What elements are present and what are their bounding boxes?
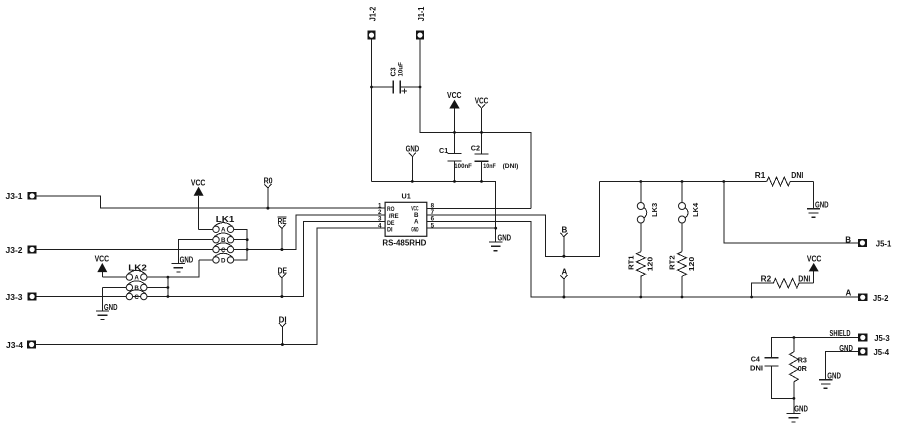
power VCC arrow (LK1) (194, 187, 213, 230)
svg-text:C4: C4 (751, 354, 760, 363)
jumper LK1 row D (199, 253, 234, 263)
net flag A (on A rail) (560, 275, 567, 299)
wire U1 pin6 A down (427, 222, 858, 298)
wire GND rail top (372, 181, 496, 242)
jumper LK2 row A (126, 270, 199, 280)
wire J5-4 to ground (826, 351, 859, 379)
jumper LK2 row C (126, 290, 147, 300)
ground symbol (LK2 B) (96, 288, 109, 320)
junction SHIELD x R3 (793, 336, 796, 339)
svg-text:GND: GND (794, 405, 808, 414)
jumper LK1 row A (213, 223, 234, 233)
svg-text:DNI: DNI (750, 363, 763, 372)
net flag GND (top rail) (409, 153, 416, 182)
junction LK2 A-right bus (167, 276, 170, 279)
jumper LK1 row C (213, 243, 234, 253)
label RE with overline (278, 217, 288, 226)
svg-text:DI: DI (279, 316, 287, 325)
svg-text:DNI: DNI (798, 274, 810, 283)
svg-text:LK4: LK4 (691, 203, 700, 217)
junction VCC line x C1 (453, 131, 456, 134)
svg-text:J3-2: J3-2 (6, 246, 24, 255)
power VCC arrow (R2) (809, 263, 819, 283)
svg-text:C3: C3 (389, 67, 398, 76)
ground symbol (U1 GND) (489, 242, 502, 251)
connector terminal J3-1 (28, 192, 37, 200)
junction C3 left (370, 86, 373, 89)
resistor R3 (790, 338, 799, 399)
capacitor C4 branch (765, 338, 794, 399)
resistor RT2 (678, 252, 687, 298)
wire J3-3 through LK2 row C up to U1 pin3 (37, 221, 385, 296)
connector terminal J5-3 (858, 334, 867, 342)
wire B to J5-1 (724, 182, 858, 243)
svg-text:J5-1: J5-1 (876, 240, 892, 249)
connector terminal J1-2 (368, 31, 376, 40)
svg-text:J5-4: J5-4 (874, 348, 890, 357)
jumper LK1 row B (178, 233, 247, 243)
svg-text:VCC: VCC (475, 96, 489, 105)
svg-text:DI: DI (387, 226, 393, 233)
svg-text:10uF: 10uF (398, 62, 405, 77)
capacitor C1 (448, 153, 462, 181)
svg-text:GND: GND (411, 226, 419, 233)
op-amp U1 transceiver box (385, 202, 427, 236)
svg-text:B: B (845, 235, 851, 244)
wire J3-1 to U1 pin1 (37, 196, 385, 208)
wire U1 pin5 GND (427, 227, 496, 229)
junction LK2 bus x J3-3 (167, 295, 170, 298)
svg-text:LK3: LK3 (650, 203, 659, 217)
net flag R0 (on J3-1 wire) (264, 184, 271, 210)
svg-text:C: C (134, 294, 139, 301)
net flag DI (on J3-4 wire) (279, 323, 286, 346)
svg-text:J3-4: J3-4 (6, 341, 24, 350)
capacitor C2 (475, 154, 489, 182)
junction VCC line x C2 (480, 131, 483, 134)
svg-text:B: B (562, 225, 568, 234)
wire LK2 right bus down to J3-3 (167, 277, 169, 296)
connector terminal J5-2 (858, 293, 867, 301)
wire U1 pin7 B to jog (427, 182, 600, 257)
svg-text:A: A (562, 268, 568, 277)
svg-text:VCC: VCC (191, 178, 206, 187)
junction B rail x LK3 (639, 180, 642, 183)
junction GND rail x flag (411, 180, 414, 183)
svg-text:DNI: DNI (791, 171, 803, 180)
ground symbol (LK1 B) (172, 240, 213, 272)
svg-text:J1-1: J1-1 (417, 6, 426, 21)
svg-text:GND: GND (180, 255, 194, 264)
junction B rail x LK4 (681, 180, 684, 183)
net flag B (on pin7 jog wire) (560, 233, 567, 258)
svg-text:120: 120 (646, 257, 655, 272)
connector terminal J5-4 (858, 348, 867, 356)
ground symbol (R3/C4) (787, 398, 801, 422)
jumper link LK3 (637, 182, 647, 252)
svg-text:RT2: RT2 (668, 255, 677, 270)
connector terminal J3-4 (27, 341, 36, 349)
capacitor C3 (372, 80, 421, 93)
svg-text:R2: R2 (761, 274, 772, 283)
wire J3-2 through LK1 row C up to U1 pin2 (37, 215, 385, 250)
svg-text:J3-1: J3-1 (6, 192, 24, 201)
net flag VCC (C2) (478, 104, 485, 154)
junction LK1 C x right bus (246, 248, 249, 251)
svg-text:J3-3: J3-3 (6, 293, 24, 302)
net flag DE (on J3-3 wire) (278, 274, 285, 298)
svg-text:VCC: VCC (447, 91, 462, 100)
junction GND rail x C1 (453, 180, 456, 183)
svg-text:/RE: /RE (389, 213, 399, 220)
power VCC arrow (top, C1) (449, 100, 459, 154)
svg-text:D: D (221, 257, 226, 264)
junction A rail x RT1 (639, 296, 642, 299)
svg-text:10nF: 10nF (483, 163, 496, 170)
junction A rail x R2 stub (750, 296, 753, 299)
wire J1-2 down to GND rail (371, 40, 373, 182)
svg-text:R3: R3 (798, 355, 807, 364)
jumper LK2 row B (103, 281, 168, 291)
svg-text:RS-485RHD: RS-485RHD (382, 238, 426, 247)
ground symbol (J5-4) (819, 380, 832, 389)
connector terminal J3-2 (28, 246, 37, 254)
junction pin5 to GND stem (494, 227, 497, 230)
svg-text:A: A (846, 288, 852, 297)
svg-text:GND: GND (406, 145, 420, 154)
svg-text:4: 4 (378, 222, 382, 229)
wire B rail top right (600, 181, 767, 183)
svg-text:C2: C2 (471, 144, 480, 153)
junction LK2 B-right (167, 286, 170, 289)
svg-text:VCC: VCC (807, 254, 822, 263)
svg-text:GND: GND (827, 372, 841, 381)
svg-text:B: B (134, 285, 139, 292)
power VCC arrow (LK2) (97, 263, 126, 277)
svg-text:J5-2: J5-2 (873, 294, 889, 303)
wire SHIELD to J5-3 (772, 337, 859, 339)
junction LK1 B-right (246, 238, 249, 241)
junction C3 right (419, 86, 422, 89)
junction GND rail x C2 (480, 180, 483, 183)
svg-text:120: 120 (687, 257, 696, 272)
svg-text:100nF: 100nF (454, 163, 472, 170)
svg-text:RT1: RT1 (626, 255, 635, 270)
resistor R1 (767, 177, 814, 186)
svg-text:J1-2: J1-2 (369, 6, 378, 21)
svg-text:J5-3: J5-3 (874, 334, 890, 343)
wire LK1 D-left down to LK2 A-right (147, 260, 199, 277)
svg-text:GND: GND (815, 201, 829, 210)
svg-text:DE: DE (278, 267, 288, 276)
wire LK1 A-right to right bus (234, 229, 248, 260)
svg-text:R1: R1 (755, 171, 766, 180)
svg-text:0R: 0R (798, 364, 808, 373)
svg-text:RE: RE (278, 217, 288, 226)
svg-text:SHIELD: SHIELD (830, 329, 851, 338)
svg-text:R0: R0 (264, 177, 273, 186)
svg-text:A: A (414, 219, 419, 226)
wire U1 pin8 VCC (427, 207, 531, 209)
resistor R2 with stub (752, 279, 814, 298)
ground symbol (R1) (807, 182, 820, 218)
connector terminal J1-1 (416, 31, 424, 40)
junction C4 x R3 bottom (793, 397, 796, 400)
connector terminal J5-1 (858, 239, 867, 247)
svg-text:VCC: VCC (95, 255, 110, 264)
net flag RE (on J3-2 wire) (278, 225, 285, 252)
wire J3-4 up to U1 pin4 (36, 228, 385, 344)
jumper link LK4 (679, 182, 689, 252)
svg-text:GND: GND (498, 234, 512, 243)
junction A rail x RT2 (681, 296, 684, 299)
resistor RT1 (636, 252, 645, 298)
svg-text:GND: GND (104, 303, 118, 312)
junction B rail x J5-1 branch (722, 180, 725, 183)
svg-text:(DNI): (DNI) (503, 163, 519, 170)
svg-text:C1: C1 (439, 146, 448, 155)
wire J1-1 down, over to pin8 vertical (420, 40, 531, 209)
svg-text:U1: U1 (402, 192, 411, 201)
connector terminal J3-3 (28, 293, 37, 301)
